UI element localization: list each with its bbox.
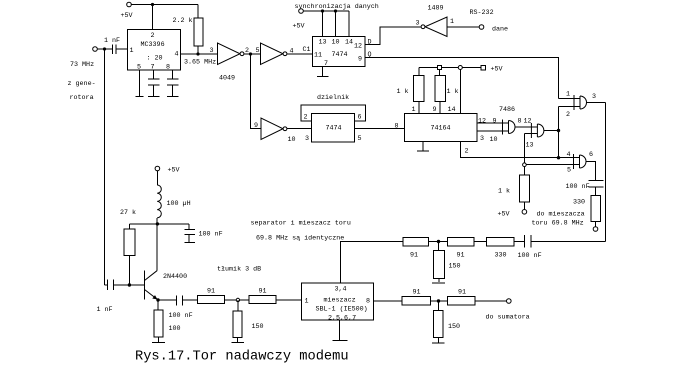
terminal +5V top left — [121, 2, 133, 20]
svg-text:do sumatora: do sumatora — [486, 314, 530, 322]
svg-text:dane: dane — [492, 26, 508, 34]
svg-text:1: 1 — [566, 91, 570, 99]
svg-text:1 k: 1 k — [397, 88, 409, 96]
svg-text:3: 3 — [480, 135, 484, 143]
capacitor 100 nF emitter — [158, 295, 197, 320]
resistor 150 (out shunt) — [432, 301, 460, 343]
node pin13 — [321, 9, 324, 12]
svg-text:: 20: : 20 — [147, 55, 163, 63]
resistor 100 emitter — [152, 300, 181, 343]
terminal +5V xor pullup — [498, 210, 527, 219]
node between inverters — [249, 52, 252, 55]
svg-text:D: D — [368, 39, 372, 47]
svg-text:C1: C1 — [303, 46, 311, 54]
ground pin7 7474 — [317, 67, 329, 77]
resistor 91 (out chain 1) — [402, 289, 447, 306]
resistor 150 (att shunt) — [232, 300, 264, 343]
svg-text:12: 12 — [354, 43, 362, 51]
svg-text:3: 3 — [416, 20, 420, 28]
svg-text:8: 8 — [166, 64, 170, 72]
ground mixer — [332, 320, 347, 340]
capacitor 100 nF output — [566, 181, 604, 196]
svg-text:2.2 k: 2.2 k — [173, 17, 193, 25]
svg-text:7: 7 — [151, 64, 155, 72]
node input junction — [103, 47, 106, 50]
svg-text:100: 100 — [169, 325, 181, 333]
svg-text:1: 1 — [305, 298, 309, 306]
inverter 1489 — [416, 5, 494, 37]
wire mixer LO up — [341, 242, 404, 284]
wire D input from 1489 — [365, 27, 421, 47]
node on pin2 line — [557, 156, 560, 159]
svg-text:+5V: +5V — [168, 167, 180, 175]
IC U1 MC3396 — [128, 30, 181, 72]
svg-text:150: 150 — [448, 323, 460, 331]
svg-text:6: 6 — [358, 114, 362, 122]
svg-text:9: 9 — [254, 122, 258, 130]
svg-text:3: 3 — [305, 135, 309, 143]
resistor 91 (out chain 2) — [447, 289, 506, 306]
svg-text:MC3396: MC3396 — [141, 41, 165, 49]
svg-text:2: 2 — [151, 32, 155, 40]
svg-text:do mieszacza: do mieszacza — [537, 211, 585, 219]
svg-text:+5V: +5V — [293, 23, 305, 31]
inverter 4049 A — [218, 43, 261, 83]
wire right vertical to chain — [605, 103, 607, 242]
wire pin4 to inverter — [181, 47, 218, 67]
svg-text:91: 91 — [458, 289, 466, 297]
wire mixer out — [373, 300, 402, 302]
svg-text:1: 1 — [130, 47, 134, 55]
IC 74164 — [405, 106, 487, 156]
svg-text:91: 91 — [457, 252, 465, 260]
wire 7474 to 74164 pin8 — [355, 123, 405, 131]
caption — [135, 350, 349, 365]
svg-text:4049: 4049 — [219, 75, 235, 83]
svg-text:toru 69.8 MHz: toru 69.8 MHz — [532, 220, 584, 228]
svg-text:RS-232: RS-232 — [470, 9, 494, 17]
IC 7474 second (dzielnik) — [301, 94, 366, 143]
node base — [128, 283, 131, 286]
svg-text:91: 91 — [259, 288, 267, 296]
wire node line — [129, 223, 189, 225]
svg-text:8: 8 — [518, 118, 522, 126]
resistor 91 (top chain 1) — [403, 237, 447, 259]
svg-text:8: 8 — [366, 298, 370, 306]
resistor 91 (att2) — [249, 288, 301, 304]
svg-text:14: 14 — [345, 39, 353, 47]
terminal 73 MHz input — [68, 47, 98, 102]
capacitor pin8 bypass — [167, 70, 178, 97]
terminal do sumatora — [486, 299, 530, 322]
svg-text:7474: 7474 — [326, 125, 342, 133]
svg-text:+5V: +5V — [498, 211, 510, 219]
resistor 150 (top shunt) — [432, 242, 461, 283]
svg-text:5: 5 — [567, 167, 571, 175]
mixer SBL-1 — [302, 283, 374, 322]
wire branch down to inverter C — [251, 54, 262, 130]
svg-text:5: 5 — [256, 47, 260, 55]
svg-text:330: 330 — [495, 252, 507, 260]
inverter 4049 B — [261, 43, 313, 65]
svg-text:9: 9 — [433, 106, 437, 114]
xor 7486 B — [524, 118, 559, 165]
svg-text:10: 10 — [332, 39, 340, 47]
resistor 1 k (pin1 pullup) — [397, 68, 425, 114]
svg-text:1 nF: 1 nF — [97, 306, 113, 314]
svg-text:100 nF: 100 nF — [199, 231, 223, 239]
svg-text:150: 150 — [449, 263, 461, 271]
svg-text:12: 12 — [524, 118, 532, 126]
svg-text:8: 8 — [395, 123, 399, 131]
svg-text:1: 1 — [450, 18, 454, 26]
junction att — [236, 298, 239, 301]
wire pin14 — [459, 70, 461, 114]
svg-text:7474: 7474 — [332, 51, 348, 59]
resistor 91 (top chain 2) — [447, 237, 486, 259]
svg-text:3: 3 — [592, 93, 596, 101]
resistor 330 (top chain) — [486, 237, 523, 259]
svg-text:4: 4 — [290, 48, 294, 56]
resistor 27 k — [120, 209, 136, 285]
svg-text:1 k: 1 k — [447, 88, 459, 96]
svg-text:9: 9 — [358, 56, 362, 64]
junction circle pin14 — [458, 66, 462, 70]
svg-text:100 nF: 100 nF — [566, 183, 590, 191]
terminal dane — [479, 25, 508, 34]
capacitor 100 nF (top chain) — [518, 235, 606, 260]
wire vertical node column — [558, 107, 560, 158]
junction square — [437, 66, 441, 70]
wire pin2 feedback — [461, 142, 580, 158]
transistor 2N4400 — [145, 224, 188, 300]
node collector — [156, 222, 159, 225]
svg-text:330: 330 — [573, 199, 585, 207]
svg-text:+5V: +5V — [121, 12, 133, 20]
svg-text:mieszacz: mieszacz — [324, 297, 356, 305]
svg-text:7: 7 — [324, 60, 328, 68]
svg-text:1 k: 1 k — [498, 188, 510, 196]
resistor 2.2 k — [173, 17, 204, 54]
terminal +5V sync — [293, 3, 379, 31]
svg-text:69.8 MHz są identyczne: 69.8 MHz są identyczne — [256, 235, 344, 243]
svg-text:2: 2 — [465, 148, 469, 156]
node pin10 — [334, 9, 337, 12]
node resistor to output — [196, 52, 199, 55]
svg-text:14: 14 — [448, 106, 456, 114]
xor 7486 A — [477, 106, 537, 144]
xor 7486 C (top right) — [559, 91, 606, 120]
capacitor 100 nF collector — [184, 224, 222, 242]
svg-text:7486: 7486 — [499, 106, 515, 114]
svg-text:74164: 74164 — [431, 125, 451, 133]
note texts — [217, 220, 351, 274]
wire +5V rail top left — [131, 5, 198, 30]
svg-text:4: 4 — [567, 151, 571, 159]
svg-text:z gene-: z gene- — [68, 80, 96, 88]
svg-text:11: 11 — [314, 52, 322, 60]
svg-text:+5V: +5V — [491, 66, 503, 74]
terminal +5V collector — [155, 166, 179, 174]
svg-text:5: 5 — [358, 135, 362, 143]
inverter 4049 C — [261, 118, 312, 144]
ground pin5 — [136, 70, 144, 97]
svg-text:13: 13 — [319, 39, 327, 47]
wire +5V to pins 13 10 14 — [303, 11, 349, 37]
svg-text:2,5,6,7: 2,5,6,7 — [328, 315, 356, 323]
resistor 91 (att1) — [197, 288, 249, 304]
node top chain — [437, 240, 440, 243]
node out chain — [437, 299, 440, 302]
svg-text:rotora: rotora — [70, 94, 94, 102]
svg-text:tłumik 3 dB: tłumik 3 dB — [217, 266, 261, 274]
svg-text:91: 91 — [207, 288, 215, 296]
svg-text:dzielnik: dzielnik — [317, 94, 349, 102]
wire left vertical long — [104, 49, 106, 285]
capacitor 1 nF base — [97, 279, 145, 314]
svg-text:91: 91 — [410, 252, 418, 260]
IC 7474 first (sync) — [313, 37, 366, 69]
resistor 1 k pullup xor — [498, 167, 530, 210]
resistor 330 output — [573, 195, 601, 226]
svg-text:10: 10 — [288, 136, 296, 144]
junction circle xor inputs pullup — [523, 163, 527, 167]
svg-text:4: 4 — [175, 51, 179, 59]
xor 7486 D — [524, 151, 595, 181]
node xorB out — [557, 129, 560, 132]
svg-text:2: 2 — [566, 111, 570, 119]
svg-text:27 k: 27 k — [120, 209, 136, 217]
svg-text:91: 91 — [413, 289, 421, 297]
node on rail — [151, 3, 154, 6]
svg-text:2N4400: 2N4400 — [163, 273, 187, 281]
capacitor pin7 bypass — [148, 70, 159, 97]
svg-text:3: 3 — [210, 47, 214, 55]
svg-text:2: 2 — [245, 47, 249, 55]
svg-text:100 nF: 100 nF — [518, 252, 542, 260]
capacitor 1 nF (input) — [104, 37, 128, 54]
terminal +5V square — [481, 65, 503, 73]
terminal do mieszacza — [532, 211, 598, 232]
svg-text:6: 6 — [589, 151, 593, 159]
svg-text:73 MHz: 73 MHz — [70, 61, 94, 69]
svg-text:Rys.17.Tor nadawczy modemu: Rys.17.Tor nadawczy modemu — [135, 350, 349, 365]
svg-text:1: 1 — [412, 106, 416, 114]
resistor 1 k (pin9 pullup) — [435, 70, 459, 114]
svg-text:100 µH: 100 µH — [167, 200, 191, 208]
ground 74164 — [417, 142, 429, 152]
wire +5V rail right — [419, 67, 481, 69]
svg-text:13: 13 — [526, 142, 534, 150]
svg-text:separator i mieszacz toru: separator i mieszacz toru — [251, 220, 351, 228]
svg-text:10: 10 — [490, 136, 498, 144]
svg-text:150: 150 — [252, 323, 264, 331]
svg-text:1 nF: 1 nF — [104, 37, 120, 45]
node emitter — [156, 298, 159, 301]
svg-text:3.65 MHz: 3.65 MHz — [184, 59, 216, 67]
svg-text:Q: Q — [368, 51, 372, 59]
svg-text:2: 2 — [304, 114, 308, 122]
svg-text:12: 12 — [478, 118, 486, 126]
svg-text:9: 9 — [493, 118, 497, 126]
svg-text:100 nF: 100 nF — [169, 312, 193, 320]
svg-text:3,4: 3,4 — [335, 286, 347, 294]
svg-text:1489: 1489 — [428, 5, 444, 13]
svg-text:synchronizacja danych: synchronizacja danych — [295, 3, 379, 11]
wire input to cap — [97, 48, 112, 50]
svg-text:SBL-1 (IE500): SBL-1 (IE500) — [316, 306, 368, 314]
inductor 100 uH — [157, 171, 190, 224]
wire Q output pin9 long — [365, 51, 559, 99]
